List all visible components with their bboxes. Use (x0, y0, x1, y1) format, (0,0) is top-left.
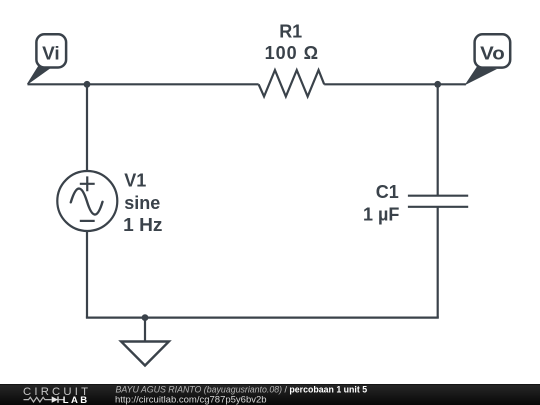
svg-text:sine: sine (124, 193, 160, 213)
wire right vertical lower (C1 bottom plate to bottom rail) (437, 207, 439, 318)
svg-text:V1: V1 (124, 171, 146, 191)
voltage source V1 minus sign (80, 220, 95, 222)
wire left vertical lower (V1 bottom to bottom rail) (86, 231, 88, 318)
voltage source V1 plus sign (80, 176, 95, 191)
svg-text:Vi: Vi (42, 44, 60, 64)
node junction dot right (Vo node) (434, 81, 441, 88)
resistor R1 zigzag body (259, 70, 325, 96)
wire bottom rail (86, 317, 439, 319)
wire ground stem (144, 318, 146, 342)
svg-text:R1: R1 (279, 22, 302, 42)
footer logo wire with resistor zigzag (24, 397, 52, 402)
flag Vo box (475, 34, 511, 67)
footer black bar (0, 384, 540, 405)
node junction dot ground (142, 314, 149, 321)
flag Vo tail (466, 67, 495, 84)
svg-text:http://circuitlab.com/cg787p5y: http://circuitlab.com/cg787p5y6bv2b (115, 395, 267, 405)
svg-text:LAB: LAB (63, 395, 90, 405)
wire top horizontal left segment (Vi to resistor) (28, 83, 259, 85)
ground symbol triangle (121, 342, 169, 366)
svg-text:1 Hz: 1 Hz (123, 215, 162, 235)
node junction dot left (Vi node) (84, 81, 91, 88)
svg-text:C1: C1 (376, 182, 399, 202)
svg-text:100 Ω: 100 Ω (265, 43, 319, 63)
svg-text:BAYU AGUS RIANTO (bayuagusrian: BAYU AGUS RIANTO (bayuagusrianto.08) / p… (116, 385, 368, 395)
wire left vertical upper (node Vi to V1 top) (86, 84, 88, 171)
capacitor C1 bottom plate (408, 206, 468, 208)
footer logo diode symbol (52, 396, 58, 402)
flag Vi box (36, 34, 66, 67)
voltage source V1 circle (57, 171, 117, 231)
wire right vertical upper (node Vo to C1 top plate) (437, 84, 439, 195)
capacitor C1 top plate (408, 195, 468, 197)
svg-text:Vo: Vo (480, 44, 505, 64)
voltage source V1 sine glyph (71, 189, 103, 215)
svg-text:1 µF: 1 µF (363, 204, 399, 224)
wire top horizontal right segment (resistor to Vo) (324, 83, 466, 85)
flag Vi tail (27, 67, 49, 85)
